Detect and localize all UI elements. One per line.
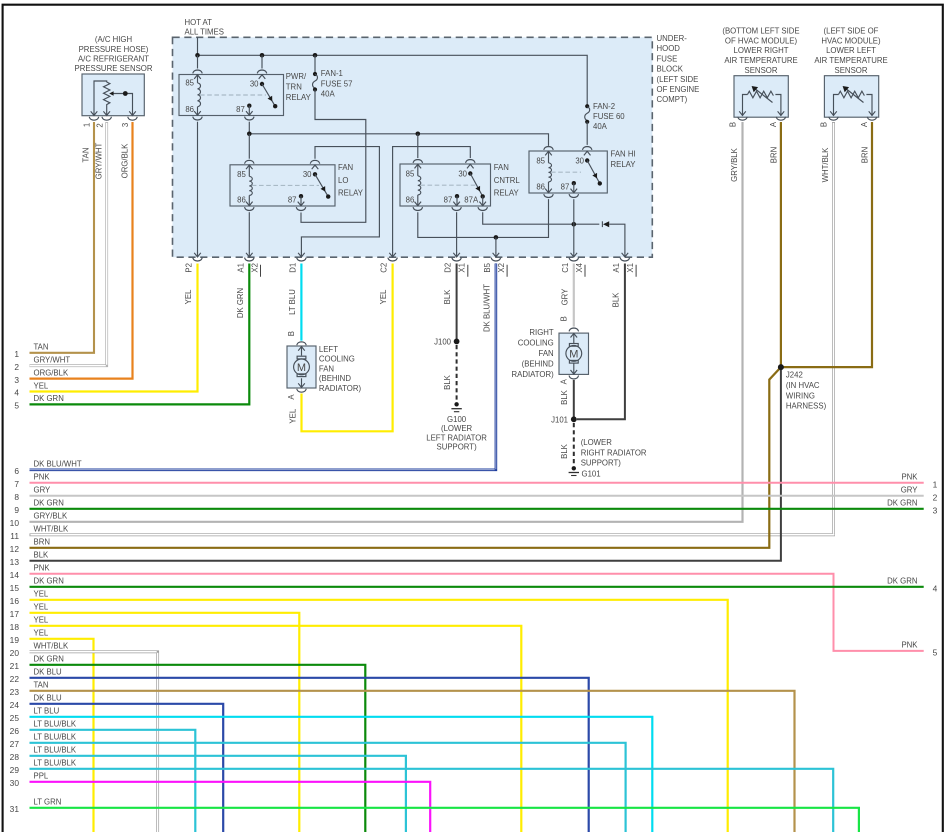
wire row22 DK BLU: [30, 678, 589, 832]
svg-text:B: B: [729, 122, 738, 127]
svg-text:40A: 40A: [321, 90, 336, 99]
svg-text:40A: 40A: [593, 122, 608, 131]
wire fan-lo 30 link to D1 drop: [301, 147, 379, 253]
wire hot feed into bus: [197, 37, 199, 55]
svg-text:LT BLU: LT BLU: [34, 707, 60, 716]
svg-text:BLK: BLK: [443, 289, 452, 305]
left cooling fan motor M1: [287, 342, 316, 392]
svg-text:PNK: PNK: [901, 473, 918, 482]
svg-text:BLK: BLK: [612, 292, 621, 308]
svg-text:30: 30: [10, 778, 20, 788]
wire BLK D2 to J100: [456, 264, 458, 342]
svg-text:P2: P2: [185, 263, 194, 273]
wire DK BLU/WHT B5 to row6: [30, 264, 496, 470]
wire bus drop to pwr/trn 85: [197, 55, 199, 68]
node fan-hi 87 junction: [572, 222, 577, 227]
wire row23 TAN: [30, 691, 795, 832]
svg-text:BRN: BRN: [860, 147, 869, 163]
svg-text:FAN-1: FAN-1: [321, 69, 343, 78]
lower left air temperature sensor title: [814, 27, 887, 75]
wire row15 DK GRN: [30, 586, 924, 588]
svg-text:PNK: PNK: [34, 473, 51, 482]
svg-text:13: 13: [10, 557, 20, 567]
rows 1-5 labels: [34, 343, 71, 404]
lower right air temperature sensor title: [722, 27, 799, 75]
svg-text:HOT AT: HOT AT: [185, 18, 213, 27]
wire DK GRN A1 to row5: [30, 264, 250, 405]
fuse block connector ref labels: [250, 262, 635, 272]
underhood fuse block label: [657, 34, 700, 104]
svg-text:FAN: FAN: [494, 163, 509, 172]
wire BLK right fan A to J101: [573, 380, 575, 419]
node J101: [571, 416, 577, 422]
svg-text:A/C REFRIGERANT: A/C REFRIGERANT: [78, 54, 149, 63]
wire GRY/WHT pin2: [30, 122, 107, 366]
wire row16 YEL: [30, 600, 728, 832]
right fan pin labels: [559, 316, 569, 405]
underhood fuse block (dashed box): [173, 37, 653, 257]
svg-text:X1: X1: [626, 263, 635, 273]
svg-text:11: 11: [10, 531, 19, 541]
svg-text:DK BLU/WHT: DK BLU/WHT: [483, 284, 492, 332]
wire row7 PNK: [30, 482, 924, 484]
svg-text:GRY: GRY: [560, 288, 569, 306]
wire coil feed to fan-lo 85: [248, 134, 250, 159]
svg-text:BLOCK: BLOCK: [657, 65, 684, 74]
svg-text:8: 8: [14, 492, 19, 502]
svg-text:30: 30: [303, 170, 312, 179]
svg-text:1: 1: [933, 479, 938, 489]
svg-text:X2: X2: [497, 263, 506, 273]
svg-text:YEL: YEL: [379, 289, 388, 304]
svg-text:87: 87: [561, 183, 570, 192]
svg-text:2: 2: [933, 492, 938, 502]
svg-text:85: 85: [406, 169, 415, 178]
svg-text:LT BLU: LT BLU: [288, 289, 297, 315]
wire fan-cntrl 86 to fan-hi 86: [418, 199, 549, 237]
svg-text:(LOWER: (LOWER: [441, 424, 473, 433]
svg-text:GRY: GRY: [901, 486, 919, 495]
wire fuse2 to fan-hi 30: [585, 104, 590, 124]
wire row24 DK BLU: [30, 704, 224, 832]
svg-text:C1: C1: [561, 263, 570, 273]
svg-text:(LEFT SIDE OF: (LEFT SIDE OF: [824, 27, 879, 36]
wire junction to B5: [495, 237, 497, 252]
wire row28 LT BLU/BLK: [30, 756, 406, 832]
wire color labels below fuse block: [184, 284, 621, 332]
svg-text:J101: J101: [551, 415, 568, 424]
svg-text:(A/C HIGH: (A/C HIGH: [95, 35, 132, 44]
svg-text:HOOD: HOOD: [657, 44, 681, 53]
svg-text:FUSE: FUSE: [657, 54, 678, 63]
svg-text:FUSE 57: FUSE 57: [321, 79, 353, 88]
svg-text:G100: G100: [447, 415, 467, 424]
svg-text:WHT/BLK: WHT/BLK: [34, 525, 69, 534]
svg-text:4: 4: [933, 583, 938, 593]
svg-text:B: B: [559, 316, 568, 321]
svg-text:LO: LO: [338, 176, 348, 185]
wire row17 YEL: [30, 613, 300, 832]
wire bus B+: [198, 55, 588, 106]
svg-text:12: 12: [10, 544, 20, 554]
wire row30 PPL: [30, 782, 431, 832]
wire row29 LT BLU/BLK: [30, 769, 834, 832]
svg-text:(LOWER: (LOWER: [581, 438, 613, 447]
svg-text:DK GRN: DK GRN: [236, 288, 245, 318]
svg-text:BRN: BRN: [34, 538, 50, 547]
svg-text:86: 86: [185, 105, 194, 114]
relay K1 PWR/TRN: [179, 70, 284, 120]
wire fan-cntrl 87 to D2: [456, 212, 458, 252]
svg-text:FAN-2: FAN-2: [593, 102, 615, 111]
wire color labels TAN GRY/WHT ORG/BLK: [82, 142, 130, 179]
svg-text:RELAY: RELAY: [611, 160, 637, 169]
svg-text:A1: A1: [236, 263, 245, 273]
svg-text:PNK: PNK: [901, 641, 918, 650]
wire GRY/BLK sensor B to row 10: [30, 122, 743, 522]
svg-text:M: M: [569, 348, 578, 360]
svg-text:7: 7: [14, 479, 19, 489]
a/c refrigerant pressure sensor title: [75, 35, 153, 73]
svg-text:B: B: [287, 331, 296, 336]
svg-text:85: 85: [185, 79, 194, 88]
wire row14 PNK to 5: [30, 574, 924, 651]
svg-text:X1: X1: [458, 263, 467, 273]
wire BLK A1 to J101: [577, 264, 625, 420]
node J100: [454, 339, 460, 345]
wire row20 WHT/BLK: [30, 652, 158, 832]
ground G100: [451, 402, 461, 412]
left fan pin labels: [287, 331, 297, 423]
svg-text:ORG/BLK: ORG/BLK: [34, 368, 69, 377]
svg-text:G101: G101: [582, 469, 601, 478]
svg-text:SENSOR: SENSOR: [835, 66, 868, 75]
svg-text:YEL: YEL: [34, 590, 49, 599]
svg-text:14: 14: [10, 570, 20, 580]
svg-text:RELAY: RELAY: [286, 93, 312, 102]
svg-text:DK GRN: DK GRN: [34, 499, 64, 508]
svg-text:ORG/BLK: ORG/BLK: [120, 143, 129, 178]
svg-text:87A: 87A: [464, 196, 479, 205]
svg-text:86: 86: [406, 196, 415, 205]
svg-text:GRY/BLK: GRY/BLK: [730, 147, 739, 181]
wire row9 DK GRN: [30, 508, 924, 510]
wire ORG/BLK pin3: [30, 122, 133, 379]
svg-text:9: 9: [14, 505, 19, 515]
svg-text:HVAC MODULE): HVAC MODULE): [821, 36, 881, 45]
svg-text:BLK: BLK: [560, 443, 569, 459]
svg-text:ALL TIMES: ALL TIMES: [185, 27, 224, 36]
svg-text:BLK: BLK: [560, 389, 569, 405]
node coil feed junction 1: [247, 132, 252, 137]
svg-text:B5: B5: [483, 262, 492, 272]
svg-text:DK BLU: DK BLU: [34, 668, 63, 677]
svg-text:DK GRN: DK GRN: [887, 577, 917, 586]
svg-text:6: 6: [14, 466, 19, 476]
svg-text:TAN: TAN: [34, 343, 49, 352]
svg-text:3: 3: [14, 375, 19, 385]
svg-text:X2: X2: [250, 263, 259, 273]
svg-text:A: A: [287, 394, 296, 400]
wire BRN J242 to row 12: [30, 367, 781, 548]
svg-text:DK GRN: DK GRN: [34, 577, 64, 586]
svg-text:87: 87: [288, 195, 297, 204]
svg-text:LT BLU/BLK: LT BLU/BLK: [34, 733, 77, 742]
svg-text:COOLING: COOLING: [319, 355, 355, 364]
wire row19 YEL: [30, 639, 94, 832]
wire row18 YEL: [30, 626, 522, 832]
lower right air temp sensor: [734, 76, 788, 121]
svg-text:(LEFT SIDE: (LEFT SIDE: [657, 75, 699, 84]
svg-text:CNTRL: CNTRL: [494, 176, 521, 185]
fuse F57 FAN-1: [313, 72, 318, 92]
svg-text:HARNESS): HARNESS): [786, 402, 827, 411]
node J242: [778, 364, 784, 370]
svg-text:19: 19: [10, 635, 20, 645]
relay K4 FAN HI: [529, 147, 607, 198]
svg-text:LT BLU/BLK: LT BLU/BLK: [34, 746, 77, 755]
svg-text:GRY: GRY: [34, 486, 52, 495]
a/c pressure sensor B13: [82, 74, 144, 120]
svg-text:RELAY: RELAY: [338, 189, 364, 198]
wire bus drop to pwr/trn 30: [261, 55, 263, 68]
svg-text:YEL: YEL: [34, 616, 49, 625]
svg-text:BLK: BLK: [443, 374, 452, 390]
J242 label: [786, 371, 827, 411]
svg-text:TAN: TAN: [34, 681, 49, 690]
wire bus to fuse1: [314, 55, 316, 73]
svg-text:TAN: TAN: [82, 147, 91, 162]
svg-text:WIRING: WIRING: [786, 391, 815, 400]
svg-text:(BEHIND: (BEHIND: [522, 359, 554, 368]
node coil feed junction 2: [416, 132, 421, 137]
ground G101: [569, 466, 579, 475]
svg-text:30: 30: [575, 156, 584, 165]
svg-text:27: 27: [10, 739, 20, 749]
wire BLK J242 to row 13: [30, 369, 781, 561]
svg-text:A1: A1: [612, 263, 621, 273]
node junction B5 feed: [494, 235, 499, 240]
svg-text:BLK: BLK: [34, 551, 50, 560]
wire WHT/BLK sensor B to row 11: [30, 122, 834, 535]
svg-text:21: 21: [10, 661, 20, 671]
svg-text:AIR TEMPERATURE: AIR TEMPERATURE: [724, 56, 797, 65]
wire BLK J100 to G100 (dashed): [456, 345, 458, 402]
svg-text:86: 86: [536, 183, 545, 192]
svg-text:RIGHT RADIATOR: RIGHT RADIATOR: [581, 448, 647, 457]
svg-text:BRN: BRN: [769, 147, 778, 163]
svg-text:YEL: YEL: [34, 381, 49, 390]
svg-text:26: 26: [10, 726, 20, 736]
svg-text:OF HVAC MODULE): OF HVAC MODULE): [725, 36, 798, 45]
svg-text:LEFT: LEFT: [319, 345, 338, 354]
wire BRN sensor A to J242: [780, 122, 782, 367]
svg-text:J242: J242: [786, 371, 803, 380]
svg-text:AIR TEMPERATURE: AIR TEMPERATURE: [814, 56, 887, 65]
svg-text:LT BLU/BLK: LT BLU/BLK: [34, 759, 77, 768]
svg-text:FUSE 60: FUSE 60: [593, 112, 625, 121]
svg-text:UNDER-: UNDER-: [657, 34, 688, 43]
svg-text:3: 3: [121, 123, 130, 127]
node bus junction 1: [195, 53, 200, 58]
svg-text:TRN: TRN: [286, 82, 302, 91]
svg-text:SUPPORT): SUPPORT): [581, 459, 622, 468]
svg-text:PRESSURE HOSE): PRESSURE HOSE): [79, 45, 149, 54]
svg-text:RIGHT: RIGHT: [529, 328, 553, 337]
svg-text:WHT/BLK: WHT/BLK: [34, 642, 69, 651]
wire row31 LT GRN: [30, 808, 859, 832]
relay K3 FAN CNTRL: [400, 160, 491, 211]
svg-text:DK GRN: DK GRN: [34, 394, 64, 403]
right fan label: [512, 328, 555, 379]
wire fan-hi 87 to C1: [573, 199, 575, 252]
svg-text:COMPT): COMPT): [657, 95, 688, 104]
svg-text:22: 22: [10, 674, 20, 684]
right cooling fan motor M2: [559, 328, 589, 379]
svg-text:3: 3: [933, 505, 938, 515]
wire row8 GRY: [30, 495, 924, 497]
svg-text:C2: C2: [380, 263, 389, 273]
wire row25 LT BLU: [30, 717, 653, 832]
svg-text:85: 85: [536, 156, 545, 165]
svg-text:FAN: FAN: [319, 364, 334, 373]
svg-text:15: 15: [10, 583, 20, 593]
svg-text:28: 28: [10, 752, 20, 762]
svg-text:A: A: [559, 378, 568, 384]
svg-text:YEL: YEL: [184, 289, 193, 304]
svg-text:COOLING: COOLING: [518, 338, 554, 347]
svg-text:10: 10: [10, 518, 20, 528]
rows 6-31 labels: [34, 460, 82, 807]
svg-text:RADIATOR): RADIATOR): [512, 370, 555, 379]
wire TAN pin1: [30, 122, 95, 353]
svg-text:GRY/BLK: GRY/BLK: [34, 512, 68, 521]
svg-text:RELAY: RELAY: [494, 189, 520, 198]
svg-text:1: 1: [14, 349, 19, 359]
svg-text:18: 18: [10, 622, 20, 632]
svg-text:DK BLU: DK BLU: [34, 694, 63, 703]
svg-text:1: 1: [83, 123, 92, 127]
wire pwr/trn 86 to P2: [197, 122, 199, 253]
svg-text:DK GRN: DK GRN: [34, 655, 64, 664]
svg-text:LOWER LEFT: LOWER LEFT: [826, 46, 876, 55]
svg-text:23: 23: [10, 687, 20, 697]
wire fan-lo 86 to A1: [248, 212, 250, 252]
wire LT BLU D1 to left fan B: [300, 264, 302, 341]
wire BLK J101 to G101 (dashed): [573, 423, 575, 466]
relay K2 FAN LO: [230, 160, 335, 210]
wire BRN sensor A right to J242: [781, 122, 872, 367]
svg-text:FAN: FAN: [539, 349, 554, 358]
svg-text:B: B: [820, 122, 829, 127]
fuse block pin name labels: [185, 262, 621, 272]
svg-text:24: 24: [10, 700, 20, 710]
svg-text:2: 2: [14, 362, 19, 372]
svg-text:GRY/WHT: GRY/WHT: [95, 142, 104, 179]
svg-text:LT GRN: LT GRN: [34, 798, 62, 807]
svg-text:30: 30: [250, 80, 259, 89]
svg-text:LOWER RIGHT: LOWER RIGHT: [733, 46, 788, 55]
pin labels 1 2 3: [83, 123, 131, 128]
node bus junction 3: [313, 53, 318, 58]
svg-text:PWR/: PWR/: [286, 72, 307, 81]
svg-text:OF ENGINE: OF ENGINE: [657, 85, 700, 94]
svg-text:D2: D2: [444, 263, 453, 273]
svg-text:YEL: YEL: [34, 603, 49, 612]
diode D1: [602, 221, 625, 252]
svg-text:87: 87: [444, 196, 453, 205]
svg-text:FAN: FAN: [338, 163, 353, 172]
svg-text:PNK: PNK: [34, 564, 51, 573]
hot at all times label: [185, 18, 224, 37]
svg-text:WHT/BLK: WHT/BLK: [821, 147, 830, 182]
svg-text:DK BLU/WHT: DK BLU/WHT: [34, 460, 82, 469]
svg-text:DK GRN: DK GRN: [887, 499, 917, 508]
svg-text:20: 20: [10, 648, 20, 658]
svg-text:2: 2: [95, 123, 104, 127]
svg-text:17: 17: [10, 609, 20, 619]
svg-text:85: 85: [237, 170, 246, 179]
svg-text:A: A: [769, 121, 778, 127]
svg-text:(IN HVAC: (IN HVAC: [786, 381, 820, 390]
svg-text:31: 31: [10, 804, 20, 814]
wire pwr/trn 87 to coil bus: [248, 122, 250, 134]
wire row21 DK GRN: [30, 665, 366, 832]
wire fan-cntrl 87A to diode: [483, 212, 600, 224]
svg-text:SENSOR: SENSOR: [745, 66, 778, 75]
svg-text:M: M: [297, 362, 306, 374]
svg-text:PPL: PPL: [34, 772, 49, 781]
svg-text:LT BLU/BLK: LT BLU/BLK: [34, 720, 77, 729]
wire fan-cntrl 30 link to C2 drop: [393, 147, 471, 253]
wire row26 LT BLU/BLK: [30, 730, 196, 832]
svg-text:30: 30: [458, 169, 467, 178]
wire YEL C2 to left fan A: [302, 264, 393, 432]
wire fuse1 to fan-lo 87: [301, 90, 366, 223]
wire GRY C1 to right fan B: [573, 264, 575, 327]
wire YEL P2 to row4: [30, 264, 198, 392]
svg-text:16: 16: [10, 596, 20, 606]
svg-text:87: 87: [236, 105, 245, 114]
svg-text:A: A: [860, 121, 869, 127]
svg-text:J100: J100: [434, 338, 452, 347]
wire coil feed to fan-cntrl 85: [417, 134, 419, 158]
svg-text:YEL: YEL: [288, 408, 297, 423]
lower left air temp sensor: [824, 76, 878, 121]
svg-text:(BEHIND: (BEHIND: [319, 374, 351, 383]
svg-text:4: 4: [14, 388, 19, 398]
left fan label: [319, 345, 362, 393]
svg-text:(BOTTOM LEFT SIDE: (BOTTOM LEFT SIDE: [722, 27, 799, 36]
svg-text:25: 25: [10, 713, 20, 723]
svg-text:RADIATOR): RADIATOR): [319, 384, 362, 393]
svg-text:D1: D1: [288, 263, 297, 273]
svg-text:5: 5: [14, 401, 19, 411]
wire relay coil feed bus: [249, 134, 548, 146]
svg-text:PRESSURE SENSOR: PRESSURE SENSOR: [75, 64, 153, 73]
node bus junction 2: [260, 53, 265, 58]
wire row27 LT BLU/BLK: [30, 743, 626, 832]
svg-text:YEL: YEL: [34, 629, 49, 638]
svg-text:FAN HI: FAN HI: [611, 150, 636, 159]
svg-text:29: 29: [10, 765, 20, 775]
svg-text:86: 86: [237, 195, 246, 204]
bottom edge pin arrows: [193, 252, 630, 261]
svg-text:GRY/WHT: GRY/WHT: [34, 356, 71, 365]
rows 6-31 numbers: [10, 466, 20, 814]
svg-text:SUPPORT): SUPPORT): [437, 443, 478, 452]
svg-text:LEFT RADIATOR: LEFT RADIATOR: [426, 433, 487, 442]
